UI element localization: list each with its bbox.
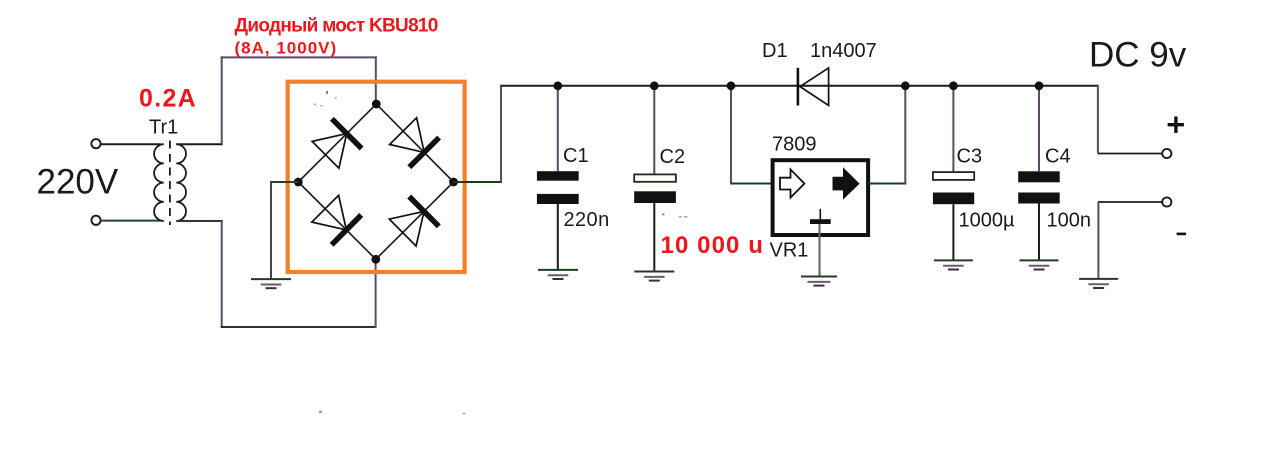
svg-text:C3: C3 — [957, 146, 983, 168]
svg-text:7809: 7809 — [772, 134, 817, 156]
svg-text:C4: C4 — [1045, 146, 1071, 168]
svg-text:10 000 u: 10 000 u — [661, 232, 765, 259]
svg-text:1000µ: 1000µ — [959, 210, 1015, 232]
svg-text:(8А, 1000V): (8А, 1000V) — [235, 39, 338, 58]
svg-text:Диодный мост KBU810: Диодный мост KBU810 — [235, 16, 438, 37]
svg-text:C1: C1 — [563, 145, 589, 167]
svg-text:0.2A: 0.2A — [139, 85, 197, 113]
svg-text:C2: C2 — [660, 146, 686, 168]
svg-text:VR1: VR1 — [770, 240, 809, 262]
svg-text:100n: 100n — [1047, 210, 1092, 232]
svg-text:220V: 220V — [37, 162, 119, 201]
svg-text:1n4007: 1n4007 — [810, 40, 877, 62]
svg-text:DC 9v: DC 9v — [1089, 35, 1187, 74]
svg-text:Tr1: Tr1 — [149, 117, 178, 139]
svg-text:220n: 220n — [564, 209, 610, 231]
svg-text:D1: D1 — [762, 40, 788, 62]
